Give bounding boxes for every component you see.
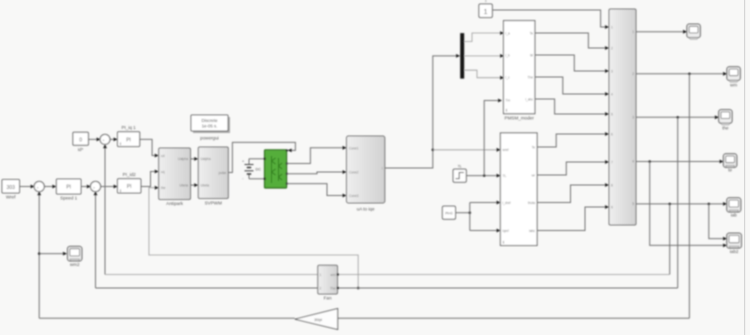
svg-text:thota: thota (528, 201, 535, 205)
wire model2 thota to mux (537, 183, 609, 202)
svg-text:Te: Te (530, 32, 534, 36)
svg-text:Ualpha: Ualpha (201, 157, 211, 161)
block Wref constant 303 (2, 180, 20, 200)
demux bar (460, 33, 464, 79)
block Fan subsystem (318, 265, 339, 300)
svg-text:9: 9 (611, 206, 613, 210)
svg-text:SVPWM: SVPWM (205, 201, 223, 206)
svg-text:TL: TL (458, 164, 462, 168)
svg-text:uq: uq (161, 170, 165, 174)
svg-text:6: 6 (611, 133, 613, 137)
svg-text:1: 1 (320, 273, 322, 277)
svg-text:3: 3 (632, 116, 634, 120)
constant 1 block (479, 0, 492, 18)
wire mux out5 to scope iab with drops (636, 202, 727, 275)
svg-text:wm: wm (331, 273, 336, 277)
constant P=0 block (442, 206, 455, 219)
svg-text:powergui: powergui (200, 136, 219, 141)
wire long wm y=318 gain output to left (39, 317, 295, 319)
svg-text:↧: ↧ (119, 189, 122, 193)
wire Antipark Ualpha to SVPWM (191, 157, 199, 161)
svg-text:4: 4 (611, 93, 613, 97)
wire theta feedback to Antipark in3 (149, 186, 360, 290)
svg-text:iab: iab (731, 212, 738, 217)
svg-text:+: + (103, 138, 105, 142)
svg-text:iab2: iab2 (730, 249, 739, 254)
svg-text:Pi=0: Pi=0 (445, 212, 452, 216)
scope wm (727, 67, 740, 88)
svg-text:i_a: i_a (505, 32, 510, 36)
wire long feedback y=288 (96, 287, 678, 289)
svg-text:?: ? (485, 0, 487, 3)
svg-text:4: 4 (632, 160, 634, 164)
svg-text:DC: DC (256, 168, 262, 172)
svg-text:Fan: Fan (324, 296, 332, 301)
step block TL (453, 164, 466, 182)
svg-text:te: te (728, 168, 732, 173)
svg-text:2: 2 (632, 72, 634, 76)
svg-text:1: 1 (484, 9, 488, 16)
svg-text:+: + (37, 185, 39, 189)
svg-text:1: 1 (632, 30, 634, 34)
svg-text:the: the (722, 125, 729, 130)
block SVPWM (198, 147, 228, 206)
wire Sum2 to PI_id2 (100, 185, 117, 189)
wire PI_iq1 to Antipark in1 (140, 139, 159, 157)
sum Sum2 (90, 181, 100, 191)
svg-text:i_b: i_b (505, 54, 510, 58)
svg-text:uA to iqe: uA to iqe (357, 207, 375, 212)
wire measurement out to demux riser (385, 54, 460, 168)
wire gain input from drop (338, 317, 690, 319)
block PMSM_moder (504, 21, 535, 121)
wire model2 Te to mux (537, 132, 609, 147)
block inverter universal bridge (green) (264, 149, 288, 188)
svg-text:5: 5 (611, 113, 613, 117)
svg-text:The: The (330, 287, 336, 291)
wire demux out3 to ic (464, 70, 504, 79)
svg-text:wref: wref (503, 148, 509, 152)
svg-text:+: + (242, 160, 244, 164)
wire const1 to mux in1 (492, 10, 609, 29)
svg-text:PI_iq 1: PI_iq 1 (121, 125, 136, 130)
svg-text:PI: PI (66, 185, 71, 191)
wire id* const to Sum3 (88, 138, 100, 142)
svg-text:+: + (93, 185, 95, 189)
scope iab2 two inputs (727, 233, 742, 254)
wire mux out2 to scope wm with drop to gain (636, 72, 727, 318)
svg-text:Ualpha: Ualpha (178, 157, 188, 161)
svg-text:Conn3: Conn3 (349, 194, 359, 198)
svg-text:pulse: pulse (219, 171, 227, 175)
svg-text:3: 3 (611, 70, 613, 74)
svg-text:-: - (242, 177, 244, 181)
wire model2 wr to mux (537, 160, 609, 175)
block powergui (191, 115, 230, 141)
svg-text:Ubeta: Ubeta (201, 183, 210, 187)
svg-text:8: 8 (611, 184, 613, 188)
wire iq feedback riser to Sum2 (94, 191, 98, 288)
svg-text:5: 5 (632, 202, 634, 206)
sum Sum1 (34, 181, 44, 191)
svg-text:Tm: Tm (506, 99, 511, 103)
scope iab (727, 198, 741, 218)
wire Antipark Ubeta to SVPWM (191, 183, 199, 187)
wire inverter B to Conn2 (287, 170, 347, 174)
svg-text:ud: ud (161, 154, 165, 158)
wire branch to wm2 scope (39, 252, 67, 256)
wire demux out1 to ia (464, 31, 504, 41)
sum Sum3 (100, 134, 110, 144)
svg-text:wm2: wm2 (70, 262, 80, 267)
svg-text:TL: TL (503, 174, 507, 178)
svg-text:Wref: Wref (6, 195, 16, 200)
tall mux compare block (609, 9, 636, 225)
wire branch to model2 in1 (433, 148, 501, 152)
wire mux out4 to scope te with drop to scope6 bottom (636, 160, 727, 248)
wire inverter A to Conn1 (287, 146, 347, 164)
wire demux out2 to ib (464, 54, 504, 58)
svg-text:1: 1 (611, 26, 613, 30)
svg-text:0: 0 (79, 137, 82, 143)
svg-text:↧: ↧ (119, 142, 122, 146)
scope te (723, 154, 736, 173)
wire mux out3 to scope the with drop to y288 (636, 115, 719, 288)
svg-text:Te: Te (532, 146, 536, 150)
wire Speed PI to Sum2 (81, 185, 91, 189)
svg-text:30/pi: 30/pi (314, 318, 322, 322)
svg-text:Conn1: Conn1 (349, 146, 359, 150)
wire long feedback y=274.5 (105, 274, 670, 276)
block Antipark dq2alphabeta (159, 148, 191, 206)
wire PI_id2 to Antipark in2 (141, 170, 159, 187)
wire PMSM iabc to mux (535, 99, 609, 116)
wire PMSM W to mux (535, 55, 609, 73)
wire model2 iabc to mux (537, 205, 609, 230)
wire mux out1 to scope1 (636, 30, 687, 34)
wire DC minus to inverter (249, 178, 264, 180)
svg-text:1e-05 s.: 1e-05 s. (202, 124, 218, 129)
wire inverter C to Conn3 (287, 184, 347, 198)
svg-text:Discrete: Discrete (201, 118, 218, 123)
block id* constant 0 (73, 132, 89, 152)
svg-text:Antipark: Antipark (166, 201, 184, 206)
svg-text:PI: PI (127, 184, 132, 190)
wire P=0 to model2 idref iqref (456, 201, 501, 233)
svg-text:i_dref: i_dref (502, 201, 510, 205)
svg-text:2: 2 (611, 47, 613, 51)
svg-text:↧: ↧ (502, 241, 505, 245)
wire wm feedback riser to Sum1 (37, 191, 41, 318)
svg-text:303: 303 (7, 185, 16, 191)
svg-text:Speed 1: Speed 1 (60, 196, 78, 201)
wire id feedback riser to Sum3 (103, 144, 107, 274)
svg-text:Conn2: Conn2 (349, 171, 359, 175)
svg-text:iqref: iqref (503, 229, 509, 233)
block PI_id2 (118, 172, 141, 193)
svg-text:The: The (528, 76, 534, 80)
svg-text:id*: id* (78, 147, 84, 152)
svg-text:Ubeta: Ubeta (179, 183, 188, 187)
svg-text:W: W (530, 54, 533, 58)
svg-text:the: the (161, 186, 166, 190)
svg-text:i_c: i_c (505, 76, 510, 80)
block abc to dq measurement (347, 136, 385, 212)
wire PMSM Te to mux (535, 33, 609, 50)
svg-text:2: 2 (320, 287, 322, 291)
svg-text:PI: PI (126, 137, 131, 143)
scope1 (687, 24, 700, 39)
svg-text:i_abc: i_abc (525, 98, 533, 102)
svg-text:PI_id2: PI_id2 (123, 172, 136, 177)
wire Sum3 to PI_iq1 (110, 138, 118, 142)
DC voltage source battery (242, 159, 261, 181)
wire Sum1 to Speed PI (44, 185, 56, 189)
svg-text:PMSM_moder: PMSM_moder (505, 116, 535, 121)
svg-text:iabc: iabc (529, 229, 535, 233)
block PI_iq1 (118, 125, 140, 147)
wire SVPWM pulse to inverter gate (228, 142, 295, 172)
wire PMSM The to mux (535, 77, 609, 96)
wire Wref to Sum1 (20, 185, 35, 189)
wire riser to PMSM Tm (484, 99, 502, 176)
wire step to model2 TL and Tm riser (466, 174, 500, 178)
gain 30/pi triangle (295, 309, 338, 330)
scope the (719, 110, 732, 131)
scope wm2 (68, 246, 82, 266)
wire DC plus to inverter (249, 158, 264, 160)
block PMSM model2 (500, 133, 537, 246)
window right edge (744, 0, 745, 335)
block Speed PI (56, 179, 81, 201)
svg-text:wm: wm (730, 83, 737, 88)
svg-text:7: 7 (611, 161, 613, 165)
svg-text:↧: ↧ (505, 109, 508, 113)
